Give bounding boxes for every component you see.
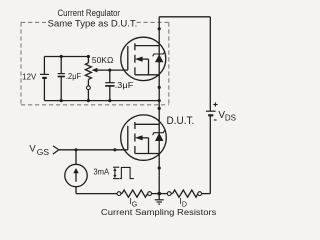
svg-text:12V: 12V bbox=[22, 73, 37, 82]
svg-text:D.U.T.: D.U.T. bbox=[167, 115, 195, 127]
svg-text:50KΩ: 50KΩ bbox=[92, 55, 113, 65]
svg-text:.3μF: .3μF bbox=[115, 80, 134, 90]
svg-text:3mA: 3mA bbox=[93, 167, 109, 177]
svg-text:GS: GS bbox=[37, 147, 50, 157]
svg-text:Current Sampling Resistors: Current Sampling Resistors bbox=[101, 208, 217, 217]
svg-text:DS: DS bbox=[225, 113, 236, 122]
svg-text:V: V bbox=[29, 144, 36, 155]
svg-text:Current Regulator: Current Regulator bbox=[58, 8, 121, 18]
svg-text:.2μF: .2μF bbox=[66, 72, 81, 81]
svg-text:Same Type as D.U.T.: Same Type as D.U.T. bbox=[48, 18, 138, 28]
